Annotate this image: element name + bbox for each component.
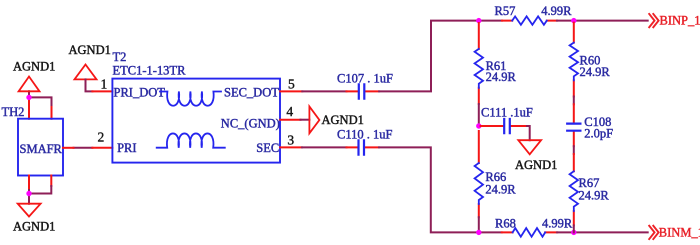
svg-text:C111 .1uF: C111 .1uF — [481, 106, 533, 120]
wire R66 to bottom rail — [478, 217, 480, 232]
svg-text:2.0pF: 2.0pF — [584, 126, 613, 140]
svg-text:AGND1: AGND1 — [13, 220, 55, 234]
wire AGND1 to T2 pin1 — [86, 79, 93, 91]
svg-text:TH2: TH2 — [2, 105, 25, 119]
wire top rail right — [557, 20, 648, 22]
svg-text:24.9R: 24.9R — [580, 65, 611, 79]
resistor R67 — [570, 154, 610, 225]
wire C111 to ground — [527, 126, 530, 140]
ground AGND1 bottom-left — [13, 204, 55, 234]
wire pin3 to C110 — [302, 146, 347, 148]
svg-text:BINM_1: BINM_1 — [659, 226, 700, 240]
svg-text:PRI_DOT: PRI_DOT — [114, 86, 166, 100]
svg-text:SEC: SEC — [256, 141, 279, 155]
svg-text:SEC_DOT: SEC_DOT — [224, 86, 279, 100]
capacitor C111 — [481, 106, 533, 134]
port BINP_1 — [649, 13, 700, 28]
wire C107 to top rail — [379, 21, 502, 92]
wire R60 to C108 — [573, 97, 575, 105]
svg-text:C110 . 1uF: C110 . 1uF — [337, 128, 392, 142]
transformer T2 body — [112, 50, 280, 163]
wire R61 to C111 junction — [478, 104, 480, 126]
svg-text:R57: R57 — [495, 4, 516, 18]
junction dot C111 — [476, 123, 481, 128]
svg-text:24.9R: 24.9R — [579, 188, 610, 202]
svg-text:PRI: PRI — [117, 141, 136, 155]
junction dot TH2 bottom — [26, 191, 31, 196]
wire R67 to bottom rail — [573, 225, 575, 232]
svg-text:ETC1-1-13TR: ETC1-1-13TR — [113, 64, 187, 78]
ground AGND1 above T2 — [69, 43, 111, 79]
ground AGND1 at C111 — [515, 140, 557, 172]
svg-text:AGND1: AGND1 — [515, 158, 557, 172]
connector TH2 SMAFR — [18, 119, 63, 176]
wire TH2 bottom pins to ground — [29, 176, 51, 191]
svg-text:AGND1: AGND1 — [13, 60, 55, 74]
svg-text:4: 4 — [286, 104, 293, 119]
svg-text:3: 3 — [287, 132, 294, 147]
svg-text:AGND1: AGND1 — [322, 113, 364, 127]
resistor R60 — [570, 23, 611, 97]
svg-text:R68: R68 — [495, 216, 516, 230]
pin stub SMAFR right — [63, 147, 74, 149]
svg-text:AGND1: AGND1 — [69, 43, 111, 57]
capacitor C110 — [337, 128, 392, 155]
pin 3 stub T2 — [280, 146, 302, 148]
resistor R68 — [495, 216, 573, 236]
resistor R66 — [475, 131, 517, 217]
transformer T2 primary winding — [160, 92, 221, 106]
wire TH2 bottom joining — [29, 186, 51, 204]
svg-text:BINP_1: BINP_1 — [660, 14, 700, 28]
svg-text:NC_(GND): NC_(GND) — [221, 116, 280, 130]
svg-text:24.9R: 24.9R — [486, 70, 517, 84]
wire pin4 to AGND1 — [301, 119, 310, 121]
junction dot bottom rail left — [476, 230, 481, 235]
wire C110 to bottom rail — [379, 147, 502, 232]
junction dot TH2 top — [26, 95, 31, 100]
resistor R57 — [495, 4, 573, 25]
wire pin5 to C107 — [302, 90, 346, 92]
resistor R61 — [475, 23, 517, 104]
capacitor C107 — [337, 72, 393, 99]
junction dot top rail right — [571, 18, 576, 23]
wire TH2 top pin stubs — [29, 100, 52, 119]
svg-text:1: 1 — [101, 77, 108, 92]
wire TH2 top to AGND1 — [29, 91, 52, 107]
pin 1 stub T2 — [92, 90, 112, 92]
svg-text:24.9R: 24.9R — [485, 183, 516, 197]
svg-text:SMAFR: SMAFR — [20, 142, 63, 156]
port BINM_1 — [649, 225, 700, 240]
wire bottom rail right — [557, 231, 648, 233]
pin 4 stub T2 — [280, 119, 300, 121]
svg-text:5: 5 — [288, 76, 295, 91]
ground AGND1 at pin 4 — [309, 107, 363, 134]
svg-text:C107 . 1uF: C107 . 1uF — [337, 72, 393, 86]
svg-text:T2: T2 — [113, 50, 127, 64]
svg-text:4.99R: 4.99R — [542, 216, 573, 230]
ground AGND1 top-left — [13, 60, 55, 92]
junction dot top rail left — [476, 18, 481, 23]
junction dot bottom rail right — [571, 230, 576, 235]
capacitor C108 — [567, 104, 613, 146]
svg-text:4.99R: 4.99R — [541, 4, 572, 18]
svg-text:2: 2 — [98, 130, 105, 145]
wire SMAFR pin2 to T2 pin2 — [74, 147, 93, 149]
wire C108 to R67 — [573, 146, 575, 154]
pin 5 stub T2 — [280, 90, 302, 92]
pin 2 stub T2 — [92, 147, 112, 149]
transformer T2 secondary winding — [157, 133, 225, 147]
